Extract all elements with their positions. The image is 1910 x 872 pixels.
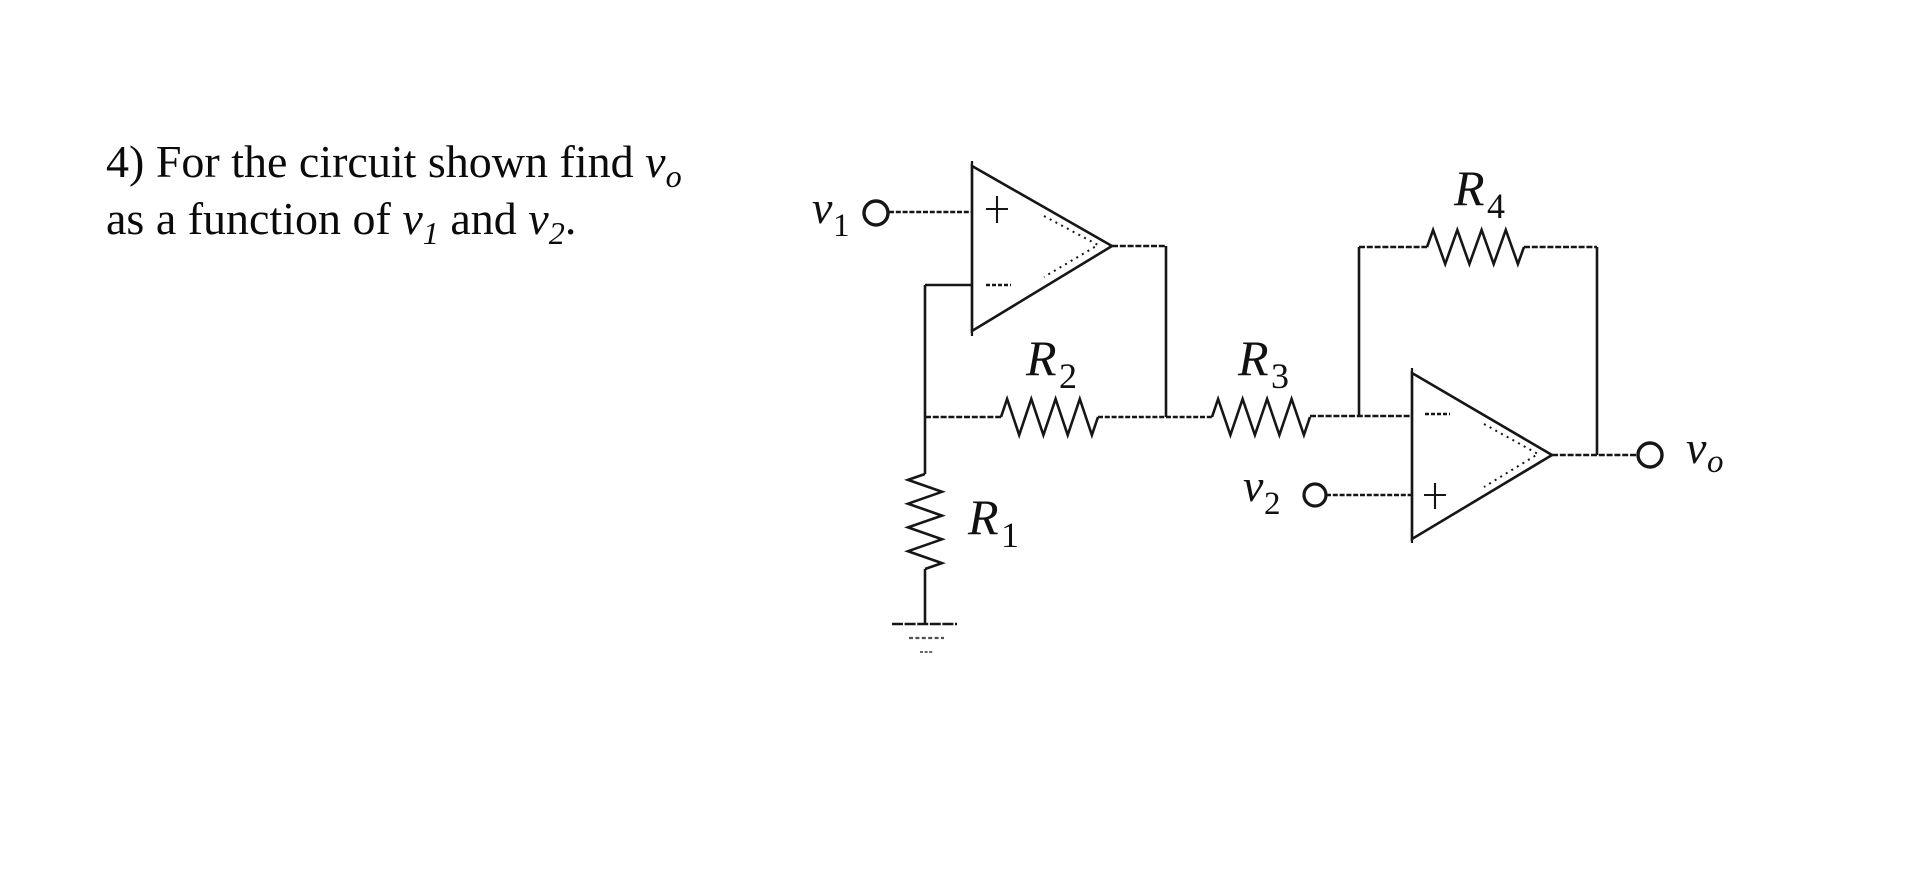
svg-text:4: 4 — [1487, 186, 1505, 226]
wire R2 to R3 through node B — [1098, 416, 1212, 419]
question text — [106, 133, 746, 247]
ground — [892, 624, 957, 652]
node vo terminal — [1638, 443, 1662, 467]
svg-text:R: R — [1025, 330, 1057, 386]
node v2 terminal — [1304, 484, 1326, 506]
resistor R2 — [1001, 399, 1098, 435]
U2 - input symbol — [1425, 413, 1450, 415]
wire to R4 — [1359, 246, 1427, 249]
U2 + input symbol — [1424, 483, 1446, 509]
wire right vertical down to output node — [1596, 247, 1599, 455]
svg-text:R: R — [1237, 330, 1269, 386]
svg-text:R: R — [1453, 160, 1485, 216]
resistor R4 — [1427, 230, 1524, 264]
op-amp U1 — [972, 161, 1112, 336]
svg-text:3: 3 — [1271, 356, 1289, 396]
wire node C up to R4 — [1358, 247, 1361, 416]
label R1 — [967, 489, 1019, 555]
label R2 — [1025, 330, 1077, 396]
wire U1 output — [1112, 245, 1166, 248]
svg-text:v: v — [1243, 460, 1264, 511]
label R3 — [1237, 330, 1289, 396]
label v1 — [812, 182, 850, 244]
svg-text:1: 1 — [833, 208, 850, 244]
svg-text:1: 1 — [1001, 515, 1019, 555]
svg-text:v: v — [812, 182, 833, 233]
wire U1 output down to node B — [1165, 246, 1168, 417]
U1 + input symbol — [986, 196, 1008, 223]
wire feedback vertical down to node A — [924, 285, 927, 417]
resistor R3 — [1212, 399, 1310, 435]
wire U1 - input to feedback node — [925, 284, 972, 287]
wire R3 to U2 - input through node C — [1310, 415, 1412, 418]
label R4 — [1453, 160, 1505, 226]
label v2 — [1243, 460, 1281, 522]
wire v1 to op-amp U1 + input — [889, 211, 972, 214]
wire v2 to U2 + input — [1326, 494, 1412, 497]
U1 - input symbol — [986, 284, 1011, 286]
svg-text:o: o — [1707, 444, 1724, 480]
label vo — [1686, 422, 1724, 480]
svg-text:2: 2 — [1059, 356, 1077, 396]
node v1 terminal — [864, 201, 888, 225]
wire R4 to right corner — [1524, 246, 1597, 249]
wire U2 output to vo terminal — [1552, 454, 1638, 457]
wire node A down to R1 — [924, 417, 927, 474]
wire R1 to ground — [924, 569, 927, 623]
wire node A to R2 — [925, 416, 1001, 419]
svg-text:R: R — [967, 489, 999, 545]
svg-text:2: 2 — [1264, 486, 1281, 522]
resistor R1 — [908, 474, 942, 569]
svg-text:v: v — [1686, 422, 1707, 473]
op-amp U2 — [1412, 368, 1552, 543]
